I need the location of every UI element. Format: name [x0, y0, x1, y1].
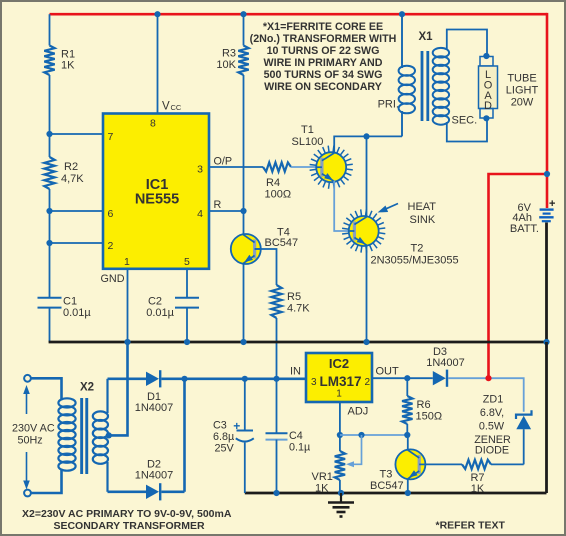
transformer X1 secondary coil	[433, 48, 449, 125]
svg-text:IC2: IC2	[329, 356, 349, 371]
junction rail T2 emitter	[363, 339, 369, 345]
diode D3 1N4007	[426, 346, 465, 387]
wire left rail R1 to pin7	[49, 75, 51, 134]
svg-text:SECONDARY TRANSFORMER: SECONDARY TRANSFORMER	[53, 520, 205, 532]
transistor T2 2N3055	[342, 209, 458, 266]
wire ADJ to T3 collector	[340, 434, 407, 436]
junction X1 primary on red rail	[399, 11, 405, 17]
wire X1 secondary bottom to load	[447, 118, 487, 141]
wire left rail pin7 to R2	[49, 134, 51, 157]
svg-text:25V: 25V	[215, 443, 235, 455]
svg-text:2N3055/MJE3055: 2N3055/MJE3055	[371, 255, 459, 267]
zener ZD1 6.8V	[474, 394, 531, 465]
svg-text:4,7K: 4,7K	[61, 173, 84, 185]
junction rail battery	[543, 339, 549, 345]
svg-text:X1: X1	[418, 31, 433, 43]
svg-text:T2: T2	[411, 243, 424, 255]
svg-text:*X1=FERRITE CORE EE: *X1=FERRITE CORE EE	[263, 21, 383, 33]
svg-text:2: 2	[364, 377, 370, 388]
svg-text:10 TURNS OF 22 SWG: 10 TURNS OF 22 SWG	[267, 45, 380, 57]
junction pin6 node	[46, 208, 52, 214]
svg-text:V: V	[162, 101, 170, 113]
svg-text:3: 3	[197, 164, 203, 176]
svg-text:0.1µ: 0.1µ	[289, 442, 310, 454]
label ADJ	[348, 406, 369, 418]
resistor R5	[271, 285, 310, 318]
svg-text:ADJ: ADJ	[348, 406, 369, 418]
svg-text:1N4007: 1N4007	[426, 357, 465, 369]
wire T4 base to R5	[255, 249, 277, 285]
wire pin 2 stub	[50, 242, 104, 244]
svg-text:X2=230V AC PRIMARY TO 9V-0-9V,: X2=230V AC PRIMARY TO 9V-0-9V, 500mA	[22, 508, 232, 520]
note X1 winding details	[250, 21, 397, 93]
svg-text:1K: 1K	[471, 483, 485, 495]
wire T1 emitter to T2 base	[334, 181, 350, 231]
label TUBE LIGHT 20W	[506, 73, 539, 109]
junction load top	[483, 53, 489, 59]
svg-text:6.8µ: 6.8µ	[213, 431, 234, 443]
svg-text:T1: T1	[301, 124, 314, 136]
svg-text:BC547: BC547	[265, 237, 299, 249]
wire left rail R2 to pin6	[49, 189, 51, 211]
junction R6 node	[404, 375, 410, 381]
wire C1 to ground rail	[49, 308, 51, 342]
junction ADJ node	[337, 432, 343, 438]
transistor T3 BC547	[370, 449, 425, 492]
svg-text:TUBE: TUBE	[507, 73, 536, 85]
wire R4 to T1 base	[291, 166, 316, 168]
junction C3 node	[242, 376, 248, 382]
transformer X1 primary coil	[399, 66, 415, 114]
junction T3 collector node	[404, 432, 410, 438]
junction X2 center tap	[106, 432, 112, 438]
junction rail T4 emitter	[240, 339, 246, 345]
transformer X1 core	[421, 51, 430, 121]
junction rail C2	[184, 339, 190, 345]
label R reset	[214, 199, 222, 211]
svg-text:1: 1	[336, 389, 342, 400]
svg-text:O/P: O/P	[214, 156, 233, 168]
ground	[328, 493, 354, 517]
capacitor C3	[213, 379, 254, 493]
wire T4 emitter to ground rail	[243, 264, 245, 342]
svg-text:230V AC: 230V AC	[12, 423, 55, 435]
svg-text:LM317: LM317	[319, 374, 361, 389]
label X1	[418, 31, 433, 43]
svg-text:4: 4	[197, 208, 203, 220]
wire red branch to LM317 output	[489, 174, 548, 378]
svg-text:OUT: OUT	[376, 366, 400, 378]
transformer X2 secondary coil	[93, 411, 108, 463]
battery BATT 6V 4Ah	[510, 198, 556, 235]
diode D2 1N4007	[108, 459, 185, 501]
svg-text:R4: R4	[266, 177, 280, 189]
transformer X2 core	[80, 398, 88, 474]
wire left rail pin2 to C1	[49, 243, 51, 298]
note refer text	[436, 520, 506, 532]
junction wiper node	[358, 432, 364, 438]
svg-text:4.7K: 4.7K	[287, 303, 310, 315]
voltage regulator IC2 LM317	[306, 353, 372, 402]
svg-text:R6: R6	[417, 399, 431, 411]
capacitor C1	[38, 296, 92, 320]
label PRI.	[378, 99, 399, 111]
transistor T1 SL100	[292, 124, 353, 189]
svg-text:SEC.: SEC.	[452, 115, 478, 127]
terminal mains bottom	[24, 490, 31, 497]
svg-text:1: 1	[124, 256, 130, 268]
junction red branch at battery column	[544, 171, 550, 177]
label O/P	[214, 156, 233, 168]
svg-text:150Ω: 150Ω	[416, 411, 443, 423]
svg-text:R3: R3	[222, 48, 236, 60]
svg-text:500 TURNS OF 34 SWG: 500 TURNS OF 34 SWG	[264, 69, 383, 81]
svg-text:1K: 1K	[315, 483, 329, 495]
svg-text:2: 2	[108, 240, 114, 252]
svg-text:WIRE IN PRIMARY AND: WIRE IN PRIMARY AND	[264, 57, 383, 69]
junction lower rail VR1	[338, 490, 344, 496]
wire X2 secondary bottom lead	[106, 462, 108, 492]
wire ADJ column	[339, 402, 341, 451]
svg-text:HEAT: HEAT	[408, 201, 437, 213]
svg-text:R: R	[214, 199, 222, 211]
junction load bottom	[483, 115, 489, 121]
wire T2 emitter to ground rail	[366, 245, 368, 342]
note X2 transformer	[22, 508, 232, 532]
svg-text:VR1: VR1	[312, 471, 333, 483]
svg-text:R2: R2	[64, 161, 78, 173]
wire T1 collector up	[334, 136, 402, 153]
svg-text:0.01µ: 0.01µ	[146, 307, 174, 319]
wire C2 to ground rail	[186, 308, 188, 342]
capacitor C4	[266, 379, 311, 493]
wire pin1 GND column	[127, 269, 129, 342]
svg-text:10K: 10K	[216, 59, 236, 71]
svg-text:C4: C4	[289, 430, 303, 442]
svg-text:+: +	[549, 198, 555, 210]
junction lower rail T3	[405, 490, 411, 496]
wire mains bottom to X2	[31, 470, 62, 493]
junction rail GND column	[124, 339, 130, 345]
transformer X2 primary coil	[58, 398, 75, 470]
wire T2 collector	[366, 136, 368, 217]
label OUT	[376, 366, 400, 378]
svg-text:1K: 1K	[61, 60, 75, 72]
op-amp U1 timer IC1 NE555	[103, 114, 209, 269]
terminal mains top	[24, 375, 31, 382]
wire pin 3 to R4	[209, 166, 263, 168]
wire OUT to D3	[372, 377, 433, 379]
wire T3 collector	[407, 435, 409, 450]
resistor R7	[425, 460, 523, 495]
capacitor C2	[146, 296, 199, 320]
wire ground rail upper	[49, 341, 547, 344]
wire battery negative lower	[545, 342, 548, 493]
transistor T4 BC547	[231, 227, 298, 265]
junction red feed	[485, 375, 491, 381]
transformer X1 primary lead bottom	[401, 111, 403, 136]
wire R3 top lead	[243, 14, 245, 45]
svg-text:1N4007: 1N4007	[135, 402, 174, 414]
transformer X1 primary lead top	[401, 14, 403, 68]
svg-text:1N4007: 1N4007	[135, 470, 174, 482]
junction R3 on red rail	[240, 11, 246, 17]
junction T2 collector node	[363, 133, 369, 139]
svg-text:SL100: SL100	[292, 136, 324, 148]
svg-text:6.8V,: 6.8V,	[480, 407, 504, 419]
svg-text:20W: 20W	[511, 97, 534, 109]
svg-text:C3: C3	[213, 420, 227, 432]
junction pin4 R3 column	[240, 208, 246, 214]
svg-text:SINK: SINK	[410, 214, 436, 226]
wire pin 4 stub	[209, 210, 244, 212]
diode D1 1N4007	[108, 370, 185, 414]
load tube light box	[479, 57, 498, 119]
label IN	[290, 366, 301, 378]
resistor R2	[44, 157, 84, 189]
svg-text:C2: C2	[148, 296, 162, 308]
svg-text:X2: X2	[80, 382, 94, 394]
wire Vcc stub pin 8	[157, 14, 159, 113]
wire pin 7 stub	[50, 133, 104, 135]
svg-text:PRI.: PRI.	[378, 99, 399, 111]
wire pin 6 stub	[50, 210, 104, 212]
wire ground rail lower	[245, 492, 547, 495]
wire red right drop to battery +	[546, 13, 549, 208]
wire X1 secondary top to load	[447, 30, 487, 57]
svg-text:7: 7	[108, 131, 114, 143]
wire ground to X2 center tap	[109, 342, 128, 435]
junction rectifier output	[181, 376, 187, 382]
junction pin7 node	[46, 131, 52, 137]
junction C4 R5 node	[273, 376, 279, 382]
wire mains top to X2	[31, 378, 62, 399]
wire X2 secondary top lead	[106, 379, 108, 413]
svg-text:LIGHT: LIGHT	[506, 85, 539, 97]
wire T3 emitter	[407, 479, 409, 493]
resistor R6	[402, 378, 442, 435]
label GND	[101, 273, 125, 285]
wire battery negative	[545, 223, 548, 343]
junction pin2 node	[46, 240, 52, 246]
resistor R1	[44, 46, 75, 76]
svg-text:*REFER TEXT: *REFER TEXT	[436, 520, 506, 532]
svg-text:(2No.) TRANSFORMER WITH: (2No.) TRANSFORMER WITH	[250, 33, 397, 45]
svg-text:3: 3	[311, 377, 317, 388]
svg-text:6: 6	[108, 208, 114, 220]
label X2	[80, 382, 94, 394]
wire R3 to T4 collector	[243, 75, 245, 235]
svg-text:ZD1: ZD1	[483, 394, 503, 406]
svg-text:C1: C1	[63, 296, 77, 308]
wire rectifier to IC2 IN	[185, 377, 307, 380]
preset VR1 1K	[312, 435, 362, 495]
svg-text:50Hz: 50Hz	[18, 435, 43, 447]
junction Vcc stub on red rail	[154, 11, 160, 17]
label 230V AC 50Hz	[12, 385, 55, 490]
svg-text:GND: GND	[101, 273, 125, 285]
wire R5 to rectifier node	[276, 318, 278, 379]
svg-text:100Ω: 100Ω	[265, 189, 292, 201]
svg-text:0.01µ: 0.01µ	[63, 307, 91, 319]
svg-text:NE555: NE555	[135, 192, 179, 208]
label VCC	[162, 101, 182, 113]
wire left rail pin6 to pin2	[49, 211, 51, 243]
svg-text:T3: T3	[380, 469, 393, 481]
svg-text:BC547: BC547	[370, 480, 404, 492]
svg-text:0.5W: 0.5W	[479, 421, 505, 433]
svg-text:DIODE: DIODE	[475, 445, 509, 457]
svg-text:+: +	[233, 419, 240, 433]
wire pin5 to C2	[186, 269, 188, 298]
wire left rail top	[49, 14, 51, 45]
svg-text:D: D	[484, 100, 492, 112]
wire D3 to zener column	[448, 378, 524, 412]
label HEAT SINK with arrow	[378, 201, 437, 226]
resistor R4	[263, 162, 291, 200]
svg-text:CC: CC	[171, 103, 182, 112]
svg-text:IN: IN	[290, 366, 301, 378]
svg-text:BATT.: BATT.	[510, 223, 539, 235]
svg-text:WIRE ON SECONDARY: WIRE ON SECONDARY	[264, 81, 382, 93]
wire red +6V top rail	[50, 13, 548, 16]
resistor R3	[216, 46, 248, 76]
wire rectifier riser	[183, 379, 186, 492]
svg-text:5: 5	[184, 256, 190, 268]
junction lower rail C4	[273, 490, 279, 496]
svg-text:R5: R5	[287, 291, 301, 303]
svg-text:8: 8	[150, 118, 156, 130]
label SEC.	[452, 115, 478, 127]
